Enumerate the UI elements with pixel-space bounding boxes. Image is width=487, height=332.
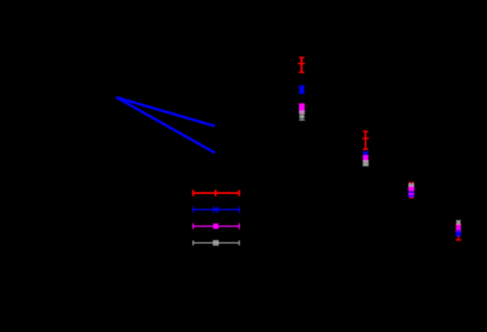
cluster3 gray errorbar pair [409,184,415,187]
cluster2 red errorbar [362,132,369,150]
legend blue entry [193,207,239,213]
cluster4 blue errorbar [456,230,461,236]
legend red entry [193,190,239,196]
legend magenta entry [193,223,239,229]
cluster4 magenta errorbar [456,225,461,230]
cluster2 gray errorbar [363,161,369,166]
cluster4 gray errorbar [456,220,460,224]
cluster1 blue errorbar [299,86,304,94]
cluster1 magenta errorbar [299,103,305,113]
legend gray entry [193,240,239,245]
cluster4 red errorbar [455,224,461,240]
cluster3 magenta errorbar pair [408,186,414,195]
blue line lower [116,97,215,153]
cluster3 red errorbar pair [408,183,414,198]
cluster3 blue errorbar pair [408,190,415,197]
cluster1 red errorbar [298,58,305,73]
cluster2 magenta errorbar [363,155,368,160]
cluster2 blue errorbar [363,152,368,157]
blue line upper [116,97,214,126]
cluster1 gray errorbar [299,111,305,120]
